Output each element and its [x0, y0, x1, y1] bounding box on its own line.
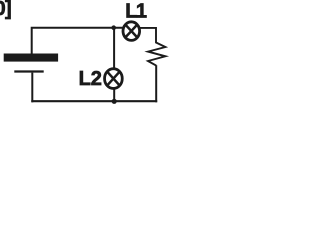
wire: battery negative down: [31, 73, 33, 103]
lamp L1: [123, 22, 140, 41]
lamp L2: [105, 69, 123, 89]
svg-text:L2: L2: [79, 68, 102, 90]
wire: resistor bottom down to bottom rail: [155, 65, 157, 102]
wire: battery positive up and top rail to L1: [32, 28, 123, 55]
wire: L1 right to resistor top: [140, 28, 157, 43]
battery B1 positive plate (thick): [4, 54, 58, 62]
junction node B (bottom): [112, 99, 117, 104]
svg-text:L1: L1: [125, 1, 147, 23]
junction node A (top): [111, 25, 116, 30]
wire: bottom rail: [31, 100, 157, 102]
svg-text:]: ]: [5, 0, 12, 20]
battery B1 negative plate (thin): [14, 70, 43, 72]
resistor R1: [148, 43, 165, 66]
wire: branch from node A down to L2: [113, 28, 115, 69]
wire: L2 bottom to node B: [113, 87, 115, 101]
